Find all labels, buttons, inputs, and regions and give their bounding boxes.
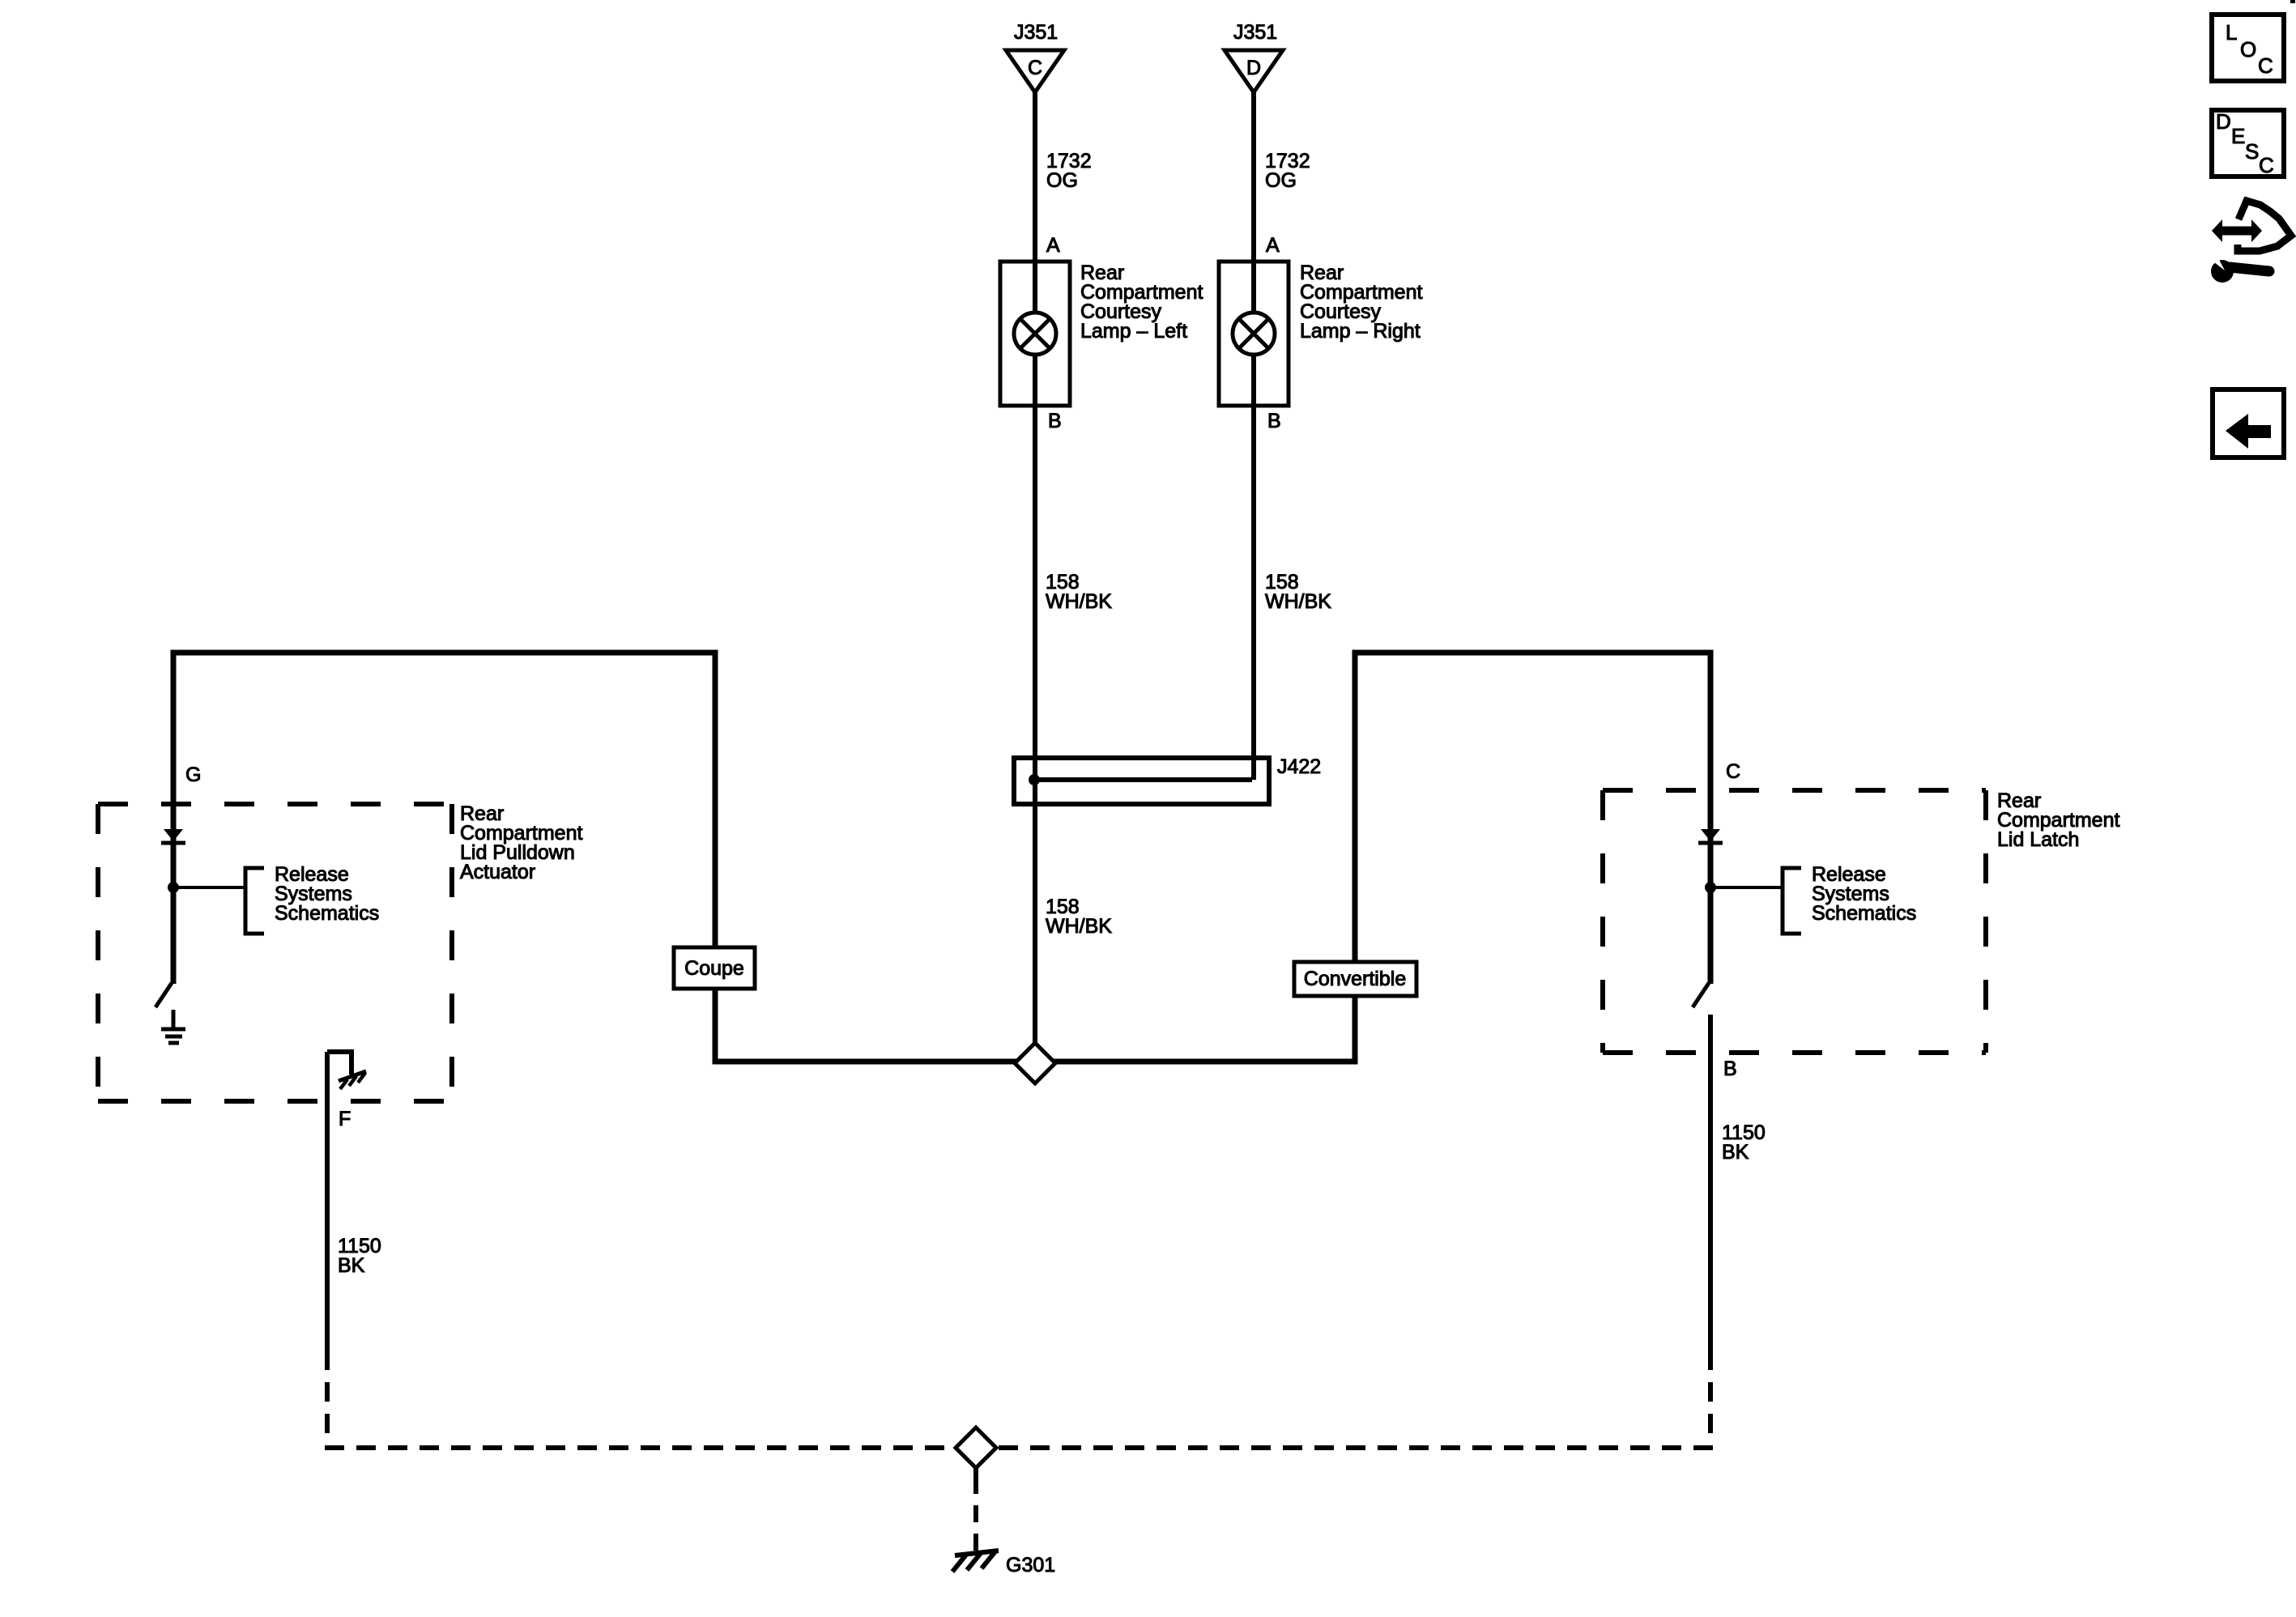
- svg-text:BK: BK: [338, 1254, 365, 1277]
- svg-text:F: F: [339, 1108, 351, 1130]
- svg-text:OG: OG: [1265, 169, 1297, 192]
- svg-text:Schematics: Schematics: [1812, 902, 1916, 925]
- svg-text:D: D: [2216, 109, 2231, 134]
- svg-text:WH/BK: WH/BK: [1265, 590, 1331, 613]
- svg-text:BK: BK: [1722, 1141, 1749, 1164]
- svg-text:C: C: [1726, 760, 1740, 783]
- svg-text:Lamp – Right: Lamp – Right: [1300, 320, 1421, 343]
- svg-text:Lid Latch: Lid Latch: [1997, 828, 2079, 851]
- svg-text:B: B: [1048, 410, 1062, 432]
- svg-text:C: C: [2258, 53, 2273, 78]
- svg-text:WH/BK: WH/BK: [1046, 915, 1112, 938]
- svg-text:G301: G301: [1006, 1554, 1055, 1577]
- svg-text:C: C: [1028, 57, 1042, 79]
- svg-text:A: A: [1046, 234, 1060, 257]
- svg-text:B: B: [1723, 1057, 1737, 1080]
- svg-text:Actuator: Actuator: [460, 861, 535, 883]
- svg-text:Schematics: Schematics: [275, 902, 379, 925]
- svg-text:J351: J351: [1233, 21, 1277, 44]
- svg-text:C: C: [2259, 153, 2274, 177]
- svg-text:OG: OG: [1046, 169, 1078, 192]
- svg-text:B: B: [1267, 410, 1281, 432]
- svg-text:WH/BK: WH/BK: [1046, 590, 1112, 613]
- svg-text:Convertible: Convertible: [1304, 968, 1406, 990]
- svg-text:A: A: [1266, 234, 1280, 257]
- svg-text:J422: J422: [1277, 755, 1321, 778]
- svg-text:L: L: [2226, 20, 2237, 45]
- svg-text:D: D: [1246, 57, 1261, 79]
- svg-text:Coupe: Coupe: [684, 957, 744, 980]
- svg-text:E: E: [2231, 124, 2245, 148]
- svg-text:J351: J351: [1014, 21, 1058, 44]
- svg-text:O: O: [2240, 37, 2256, 62]
- svg-text:S: S: [2245, 139, 2259, 164]
- svg-text:Lamp – Left: Lamp – Left: [1080, 320, 1187, 343]
- svg-text:G: G: [185, 764, 201, 786]
